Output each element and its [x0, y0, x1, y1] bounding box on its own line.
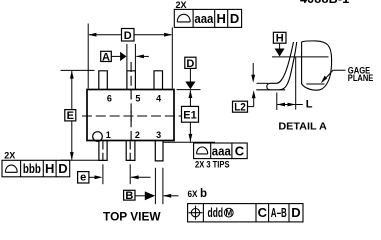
profile-of-surface symbol (aaa C frame)	[197, 147, 208, 154]
L label leader	[296, 104, 303, 106]
svg-text:A–B: A–B	[271, 205, 287, 220]
svg-text:3: 3	[156, 130, 161, 140]
gage plane leader with arrow	[323, 70, 346, 81]
dimension L line with arrows	[277, 104, 295, 106]
svg-text:L2: L2	[234, 101, 246, 113]
svg-text:4088B-1: 4088B-1	[300, 0, 349, 6]
profile-of-surface symbol (top right frame)	[177, 14, 190, 22]
lead profile right curve with heel	[287, 42, 297, 86]
body bottom edge extension (right)	[164, 141, 215, 143]
datum A leader line	[111, 55, 120, 57]
arrow to lead 3 right edge	[164, 195, 179, 197]
lead 1 centerline extension (solid)	[102, 164, 104, 184]
feature control frame: profile bbb H D	[2, 160, 70, 177]
svg-text:aaa: aaa	[212, 143, 232, 158]
lead 3 (bottom right)	[155, 141, 163, 161]
svg-text:2X 3 TIPS: 2X 3 TIPS	[195, 160, 230, 170]
arrow to lead 5 right edge	[137, 55, 149, 57]
gage plane line	[306, 83, 324, 85]
datum B solid triangle	[145, 191, 155, 200]
svg-text:M: M	[225, 209, 232, 218]
profile-of-surface symbol (left frame)	[5, 165, 17, 172]
svg-text:H: H	[217, 11, 226, 26]
dimension L2 label box	[233, 101, 248, 112]
dimension e label box	[78, 172, 89, 183]
svg-text:E: E	[67, 110, 74, 122]
dimension D label box	[122, 29, 135, 42]
svg-text:6: 6	[107, 94, 112, 104]
datum H leader line	[279, 43, 281, 49]
svg-text:5: 5	[135, 94, 140, 104]
L2 connector to box	[248, 106, 254, 108]
datum B label box	[124, 190, 135, 200]
datum D leader line	[189, 68, 191, 82]
horizontal dashed centerline	[82, 115, 183, 117]
svg-text:1: 1	[106, 130, 111, 140]
dimension E1 label box	[182, 106, 199, 122]
datum A label box	[101, 51, 112, 61]
lead 6 (top left)	[99, 71, 108, 89]
lead 2 (bottom center)	[126, 141, 135, 160]
foot top extension line	[257, 82, 269, 84]
svg-text:aaa: aaa	[194, 11, 214, 26]
pin 1 indicator circle	[93, 132, 103, 142]
svg-text:D: D	[291, 205, 300, 220]
datum D label box (right)	[185, 57, 196, 68]
svg-text:e: e	[80, 172, 86, 184]
svg-text:H: H	[45, 161, 54, 176]
datum H solid triangle	[275, 49, 285, 57]
lead 5 (top center)	[127, 71, 135, 89]
feature control frame: profile aaa C	[194, 143, 248, 159]
vertical dashed centerline	[130, 62, 132, 141]
svg-text:DETAIL A: DETAIL A	[278, 120, 327, 132]
svg-text:6X: 6X	[188, 189, 198, 199]
svg-text:C: C	[258, 205, 268, 220]
lead 4 (top right)	[154, 71, 163, 89]
datum D solid triangle	[185, 82, 195, 90]
gage plane vertical line	[295, 57, 297, 110]
L dimension extension line (foot tip)	[276, 93, 278, 111]
feature control frame: position ddd M C A-B D	[188, 204, 303, 222]
dimension E: top extension line	[61, 69, 95, 71]
dimension D: dimension line with arrows	[89, 34, 122, 36]
svg-text:E1: E1	[183, 109, 197, 121]
svg-text:D: D	[124, 30, 132, 42]
datum B leader line	[135, 195, 145, 197]
dimension e left-pointing arrow	[131, 176, 151, 178]
datum H label box	[273, 32, 286, 43]
lead 1 dashed centerline	[102, 142, 104, 163]
dimension D: right extension line	[171, 27, 173, 88]
svg-text:TOP VIEW: TOP VIEW	[103, 209, 161, 223]
svg-text:A: A	[102, 51, 110, 63]
svg-text:4: 4	[156, 94, 161, 104]
heel arc	[280, 86, 287, 90]
datum H plane line	[272, 56, 329, 58]
svg-text:D: D	[58, 161, 67, 176]
svg-text:B: B	[125, 190, 133, 202]
svg-text:2X: 2X	[176, 0, 187, 10]
dimension e leader and right-pointing arrow	[89, 176, 96, 178]
package body outline	[87, 90, 174, 141]
L2 upper arrow (pointing down)	[252, 63, 254, 76]
package body end profile (detail A)	[302, 41, 332, 90]
svg-text:2: 2	[135, 130, 140, 140]
position tolerance symbol	[189, 206, 203, 220]
centerline cross tick	[130, 111, 132, 122]
body top edge extension (right)	[177, 89, 201, 91]
svg-text:D: D	[186, 58, 194, 70]
dimension E1 line with arrows	[189, 90, 191, 106]
circled M modifier	[224, 208, 233, 217]
lead 1 (bottom left)	[99, 141, 107, 160]
svg-text:L: L	[306, 99, 313, 111]
feature control frame: profile aaa H D	[174, 9, 241, 27]
svg-text:C: C	[235, 143, 245, 158]
svg-text:b: b	[200, 188, 207, 200]
lead 5 extension lines	[126, 44, 128, 71]
lead 3 extension lines	[154, 168, 156, 204]
dimension E: bottom extension line	[61, 159, 99, 161]
lead profile left curve and foot	[267, 42, 294, 90]
datum A solid triangle	[120, 52, 126, 61]
svg-text:D: D	[230, 11, 239, 26]
svg-text:ddd: ddd	[208, 205, 224, 220]
lead 2 dashed centerline	[129, 142, 131, 163]
svg-text:bbb: bbb	[23, 161, 41, 176]
seating plane line (with foot bottom)	[256, 89, 285, 91]
svg-text:H: H	[276, 33, 284, 45]
svg-text:PLANE: PLANE	[348, 73, 374, 83]
L2 lower arrow (pointing up)	[253, 98, 255, 107]
dimension E: dimension line with arrows	[71, 71, 73, 110]
lead 2 centerline extension (solid)	[129, 164, 131, 184]
dimension E label box	[65, 110, 76, 121]
dimension D: left extension line	[87, 24, 89, 89]
svg-text:2X: 2X	[4, 151, 15, 161]
